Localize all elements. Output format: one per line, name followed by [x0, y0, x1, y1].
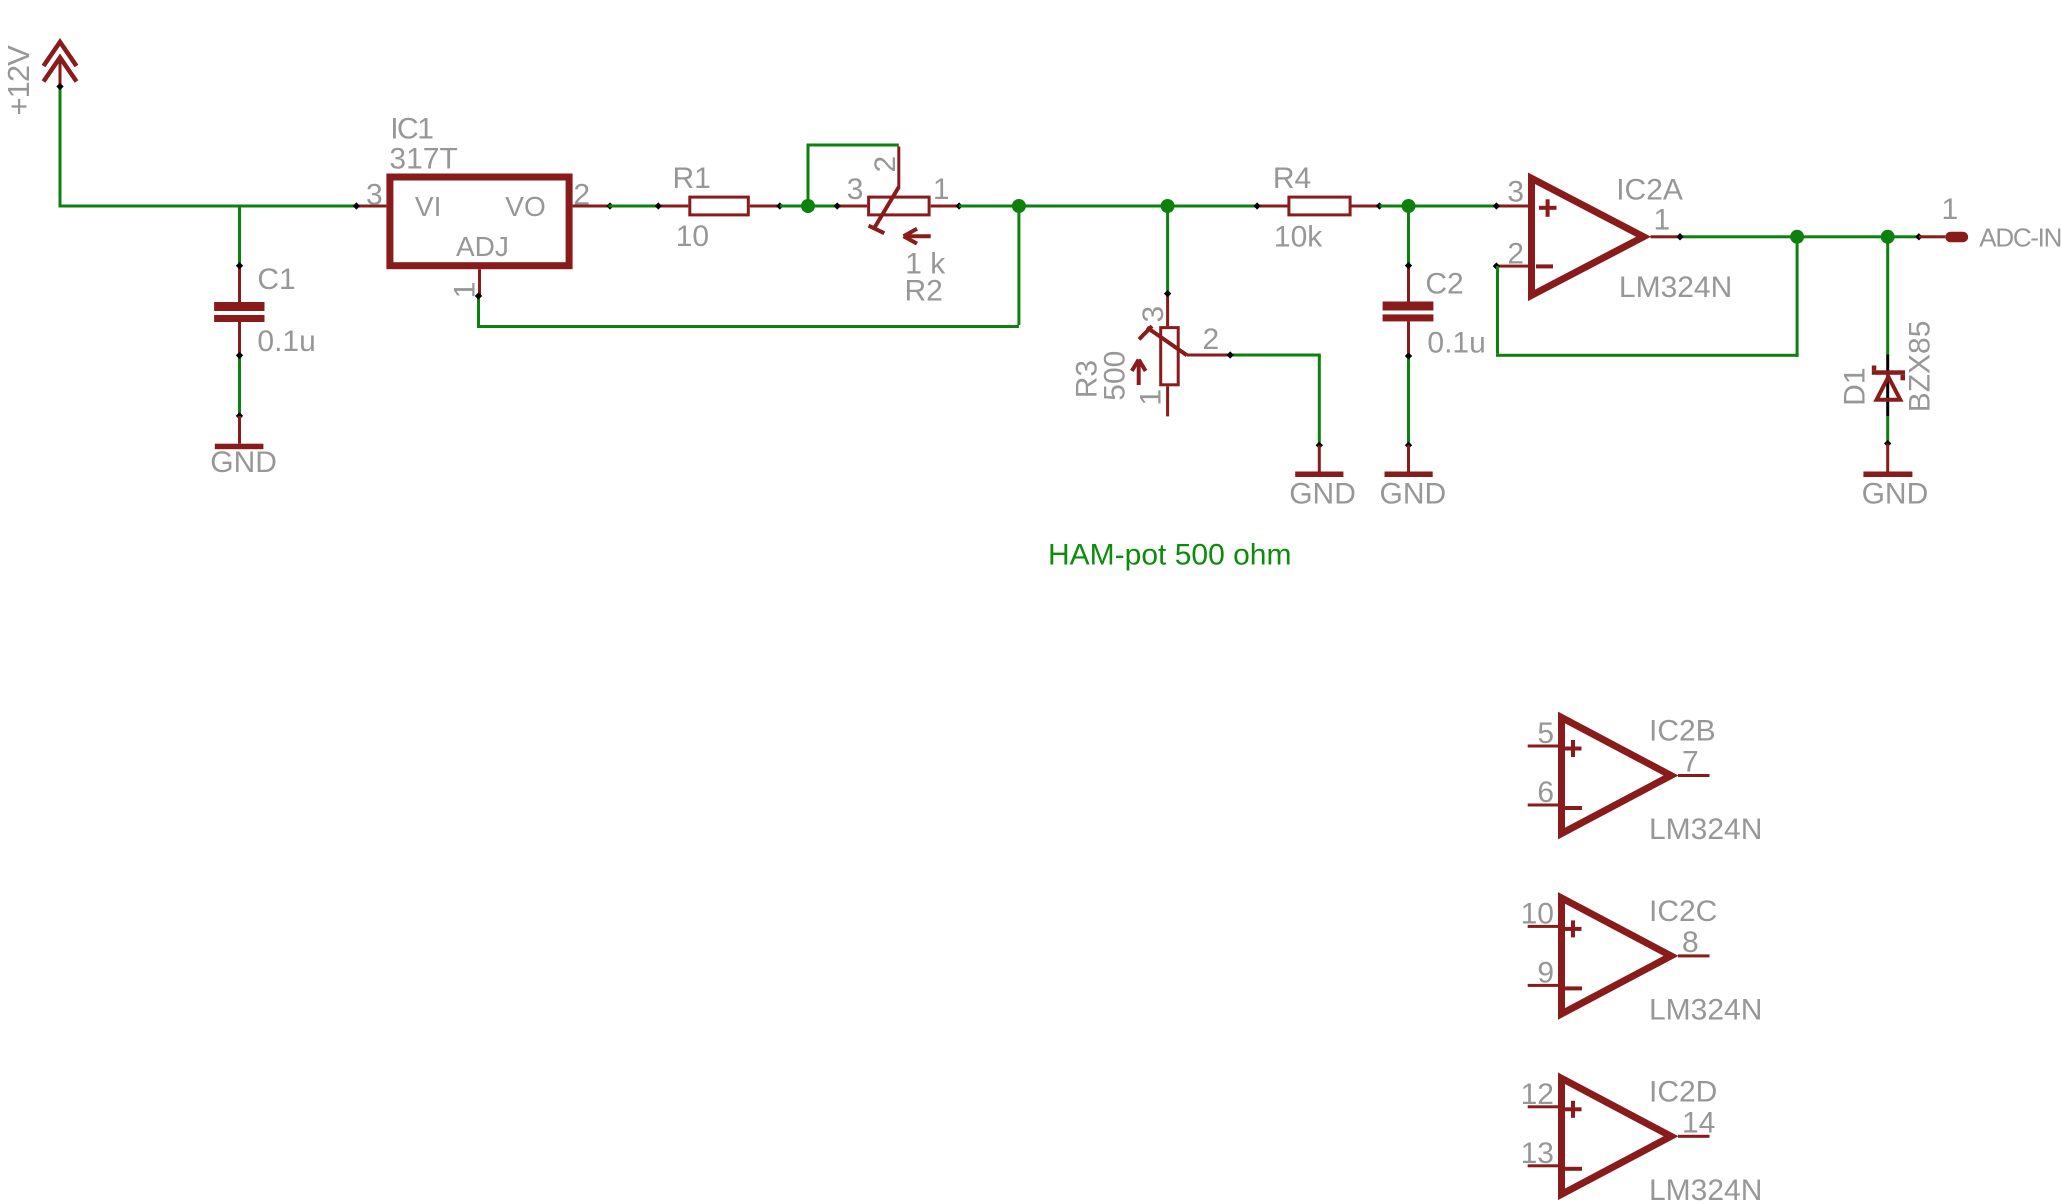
potentiometer R2 pin 3 — [837, 205, 867, 208]
pad ADC-IN pin wire — [1919, 235, 1945, 238]
svg-text:2: 2 — [1203, 323, 1220, 356]
wire +12V down — [59, 87, 62, 208]
ic IC1 pin 2 VO — [573, 205, 609, 208]
op-amp IC2B plus — [1565, 747, 1582, 751]
svg-text:GND: GND — [210, 446, 277, 479]
junction pin-wire — [56, 83, 63, 90]
svg-text:HAM-pot 500 ohm: HAM-pot 500 ohm — [1048, 539, 1291, 572]
potentiometer R2 body — [869, 197, 930, 215]
svg-text:3: 3 — [847, 173, 864, 206]
wire R2 to R4 — [959, 205, 1257, 208]
potentiometer R2 wiper tick — [869, 226, 885, 234]
svg-text:GND: GND — [1380, 478, 1447, 511]
wire ADJ down — [477, 296, 480, 328]
op-amp IC2C triangle — [1562, 898, 1672, 1014]
svg-text:IC2C: IC2C — [1649, 895, 1717, 928]
potentiometer R3 pin 1 — [1166, 386, 1169, 416]
svg-text:IC2D: IC2D — [1649, 1075, 1717, 1108]
svg-text:500: 500 — [1098, 351, 1131, 401]
node junction zener tap — [1881, 230, 1895, 244]
svg-text:13: 13 — [1521, 1137, 1554, 1170]
op-amp IC2B pin 6 stub — [1528, 804, 1558, 807]
svg-text:LM324N: LM324N — [1649, 994, 1762, 1027]
wire output — [1680, 235, 1919, 238]
wire C2 to GND — [1407, 356, 1410, 445]
svg-text:LM324N: LM324N — [1649, 1174, 1762, 1204]
svg-text:LM324N: LM324N — [1649, 813, 1762, 846]
svg-text:ADJ: ADJ — [456, 231, 509, 262]
svg-text:GND: GND — [1289, 478, 1356, 511]
svg-text:10: 10 — [1521, 897, 1554, 930]
wire feedback left vertical — [1496, 266, 1499, 354]
capacitor C2 pin bottom — [1407, 321, 1410, 356]
potentiometer R3 wiper diagonal — [1147, 328, 1187, 356]
wire C2 tap — [1407, 208, 1410, 266]
svg-text:C1: C1 — [257, 263, 295, 296]
wire loop up at junction — [807, 145, 810, 205]
wire C1 tap — [238, 208, 241, 266]
ic IC1 box — [390, 177, 569, 266]
svg-text:3: 3 — [1507, 176, 1524, 209]
svg-text:R1: R1 — [673, 162, 711, 195]
resistor R4 body — [1289, 197, 1350, 215]
op-amp IC2B triangle — [1562, 718, 1672, 834]
op-amp IC2A triangle — [1532, 178, 1644, 295]
op-amp IC2B minus — [1565, 806, 1583, 810]
wire feedback bottom — [1496, 354, 1799, 357]
op-amp IC2A pin 2 stub — [1496, 265, 1528, 268]
ground symbol R3 — [1295, 472, 1343, 478]
op-amp IC2D triangle — [1562, 1078, 1672, 1194]
svg-text:10: 10 — [676, 220, 709, 253]
svg-text:D1: D1 — [1839, 367, 1872, 405]
potentiometer R3 body — [1161, 328, 1179, 385]
wire ADJ loop horizontal — [477, 325, 1019, 328]
ground symbol C1 — [215, 444, 264, 450]
svg-text:IC1: IC1 — [390, 112, 433, 145]
resistor R4 pin left — [1257, 205, 1288, 208]
ic IC1 pin ADJ — [478, 269, 481, 296]
svg-text:0.1u: 0.1u — [1427, 326, 1485, 359]
svg-text:2: 2 — [1507, 238, 1524, 271]
svg-text:1: 1 — [933, 173, 950, 206]
capacitor C1 pin bottom — [238, 322, 241, 355]
node junction output feedback — [1790, 230, 1804, 244]
node junction feedback loop — [1012, 199, 1026, 213]
op-amp IC2D plus — [1565, 1107, 1582, 1111]
svg-text:VO: VO — [505, 191, 545, 222]
op-amp IC2C plus — [1565, 927, 1582, 931]
svg-text:8: 8 — [1682, 926, 1699, 959]
ic IC1 pin 3 VI — [356, 205, 386, 208]
resistor R4 pin right — [1350, 205, 1379, 208]
capacitor C2 pin top — [1407, 266, 1410, 302]
op-amp IC2C minus — [1565, 986, 1583, 990]
svg-text:R4: R4 — [1273, 162, 1311, 195]
wire C1 to GND — [238, 355, 241, 416]
svg-text:ADC-IN: ADC-IN — [1979, 223, 2061, 253]
potentiometer R3 wiper tick — [1139, 326, 1152, 339]
capacitor C1 plates — [214, 302, 264, 311]
wire R1 to R2 — [780, 205, 837, 208]
op-amp IC2A plus — [1539, 206, 1557, 210]
svg-text:14: 14 — [1682, 1106, 1715, 1139]
op-amp IC2B output pin 7 — [1678, 774, 1710, 777]
op-amp IC2D pin 13 stub — [1528, 1164, 1558, 1167]
potentiometer R2 pin 2 vertical — [897, 147, 900, 189]
svg-text:2: 2 — [869, 156, 902, 173]
svg-text:BZX85: BZX85 — [1903, 321, 1936, 413]
svg-text:2: 2 — [573, 179, 590, 212]
ground pin C1 — [238, 416, 241, 444]
potentiometer R2 arrow — [905, 234, 931, 238]
op-amp IC2A output pin — [1651, 235, 1681, 238]
svg-text:12: 12 — [1521, 1078, 1554, 1111]
node junction R3 tap — [1161, 199, 1175, 213]
wire main horizontal to IC1 — [59, 205, 357, 208]
potentiometer R3 arrow — [1137, 361, 1141, 385]
potentiometer R3 pin 3 — [1166, 294, 1169, 327]
ground symbol D1 — [1863, 472, 1912, 478]
potentiometer R2 wiper diagonal — [874, 187, 899, 229]
wire R4 to IC2A — [1380, 205, 1497, 208]
svg-text:R2: R2 — [905, 275, 943, 308]
resistor R1 pin left — [658, 205, 688, 208]
op-amp IC2C pin 10 stub — [1528, 925, 1558, 928]
svg-text:10k: 10k — [1274, 221, 1323, 254]
capacitor C1 pin top — [238, 266, 241, 302]
op-amp IC2A pin 3 stub — [1496, 205, 1528, 208]
svg-text:0.1u: 0.1u — [257, 325, 315, 358]
op-amp IC2D pin 12 stub — [1528, 1105, 1558, 1108]
wire feedback right vertical — [1796, 238, 1799, 356]
svg-text:IC2A: IC2A — [1616, 174, 1683, 207]
pad ADC-IN flag — [1945, 232, 1968, 242]
svg-text:7: 7 — [1682, 746, 1699, 779]
capacitor C2 plates — [1383, 302, 1434, 311]
potentiometer R2 pin 1 — [931, 205, 959, 208]
svg-text:9: 9 — [1537, 956, 1554, 989]
wire IC1 VO to R1 — [609, 205, 659, 208]
ground pin C2 — [1407, 445, 1410, 471]
diode D1 zener cathode bar — [1872, 370, 1905, 375]
diode D1 zener triangle — [1877, 377, 1901, 400]
wire zener tap down — [1886, 238, 1889, 354]
svg-text:+12V: +12V — [1, 45, 36, 116]
diode D1 pin through symbol — [1886, 355, 1889, 417]
resistor R1 body — [690, 197, 749, 215]
node junction C2 tap — [1402, 199, 1416, 213]
wire down to GND R3 — [1318, 355, 1321, 445]
ground symbol C2 — [1385, 472, 1433, 478]
svg-text:6: 6 — [1537, 776, 1554, 809]
op-amp IC2D output pin 14 — [1678, 1135, 1710, 1138]
wire loop up to node — [1017, 208, 1020, 326]
wire R3 tap down — [1166, 208, 1169, 294]
svg-text:1: 1 — [1942, 193, 1959, 226]
op-amp IC2D minus — [1565, 1167, 1583, 1171]
svg-text:1: 1 — [1134, 389, 1167, 406]
wire R3 pin2 to corner — [1230, 354, 1321, 357]
svg-text:GND: GND — [1862, 478, 1929, 511]
wire top loop to R2 pin2 — [807, 144, 899, 147]
resistor R1 pin right — [750, 205, 780, 208]
svg-text:VI: VI — [415, 191, 441, 222]
wire zener to GND — [1886, 416, 1889, 444]
ground pin D1 — [1886, 444, 1889, 472]
svg-text:1: 1 — [1654, 204, 1671, 237]
power +12V symbol — [44, 42, 77, 66]
svg-text:3: 3 — [1137, 306, 1170, 323]
op-amp IC2C output pin 8 — [1678, 954, 1710, 957]
svg-text:C2: C2 — [1425, 268, 1463, 301]
svg-text:IC2B: IC2B — [1649, 715, 1716, 748]
node junction R1-R2 loop — [801, 199, 815, 213]
svg-text:317T: 317T — [389, 142, 457, 175]
op-amp IC2C pin 9 stub — [1528, 984, 1558, 987]
svg-text:3: 3 — [366, 179, 383, 212]
svg-text:5: 5 — [1537, 717, 1554, 750]
ground pin R3 — [1318, 445, 1321, 471]
op-amp IC2A minus — [1536, 264, 1553, 268]
svg-text:LM324N: LM324N — [1619, 271, 1732, 304]
op-amp IC2B pin 5 stub — [1528, 745, 1558, 748]
potentiometer R3 pin 2 — [1187, 354, 1230, 357]
